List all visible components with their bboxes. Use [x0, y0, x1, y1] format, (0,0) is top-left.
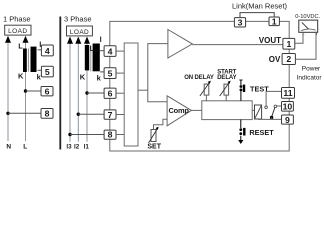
svg-text:K: K	[80, 73, 86, 82]
potentiometer SET	[149, 127, 159, 143]
wire l1 to terminal 6	[87, 92, 104, 94]
svg-text:11: 11	[283, 88, 292, 98]
svg-text:8: 8	[108, 130, 113, 140]
svg-text:SET: SET	[147, 144, 161, 151]
svg-text:7: 7	[108, 110, 113, 120]
CT secondary bar (1 phase)	[31, 47, 37, 72]
comparator U2	[167, 96, 191, 126]
terminal 1 (VOUT)	[283, 38, 295, 49]
terminal 4	[104, 46, 116, 57]
svg-text:RESET: RESET	[249, 128, 274, 137]
svg-text:K: K	[18, 71, 24, 80]
svg-text:L: L	[18, 41, 23, 50]
wire L (1 phase vertical)	[25, 39, 27, 141]
arrow into LOAD on N	[5, 36, 11, 43]
svg-text:l3: l3	[66, 143, 72, 150]
junction on L wire	[24, 89, 27, 92]
contact NO circle	[274, 105, 277, 108]
svg-text:Indicator: Indicator	[297, 75, 323, 82]
wire amplifier output to terminal 1 VOUT	[192, 44, 283, 46]
wire comparator output to logic block	[191, 109, 201, 111]
logic block	[202, 101, 252, 120]
svg-text:6: 6	[45, 86, 50, 96]
pushbutton TEST	[239, 80, 245, 101]
unit outline top edge segment link box1 to corner, right edge down to terminal 1	[279, 21, 289, 38]
svg-text:Comp: Comp	[169, 106, 190, 115]
unit outline top edge segment box3 to link box1	[246, 20, 269, 22]
wire N (1 phase vertical)	[7, 39, 9, 141]
terminal 8	[104, 130, 116, 140]
svg-text:10: 10	[283, 102, 293, 112]
wire NO contact to terminal 10	[277, 105, 282, 107]
bus wire to amplifier and comparator inputs	[148, 44, 168, 102]
junction on N wire	[6, 112, 9, 115]
svg-text:L: L	[90, 46, 95, 53]
terminal 4 (1 phase)	[41, 45, 53, 56]
op-amp A1 (output amplifier)	[168, 30, 192, 59]
svg-text:9: 9	[285, 115, 290, 125]
terminal 9	[282, 115, 294, 125]
svg-text:8: 8	[45, 109, 50, 119]
input block	[124, 43, 138, 146]
wire coil to terminal 9	[258, 118, 282, 120]
wire terminal 2 to meter -	[295, 32, 316, 59]
svg-text:0-10VDC.: 0-10VDC.	[295, 14, 320, 20]
svg-text:l2: l2	[74, 143, 80, 150]
wire l2 to terminal 7	[78, 113, 104, 115]
wire l1	[86, 40, 88, 142]
svg-text:l: l	[100, 35, 102, 44]
wire ON DELAY pot to logic block	[205, 95, 207, 101]
wire SET to comparator input	[154, 119, 168, 129]
wire terminal 5 to input block	[116, 72, 124, 74]
junction on l3	[68, 133, 71, 136]
terminal 11	[282, 88, 295, 99]
wire CT k-l to terminal 4 (1 phase)	[38, 49, 42, 51]
wire START DELAY pot to logic block	[225, 95, 227, 101]
wire N to terminal 8 (1 phase)	[8, 112, 41, 114]
unit outline bottom edge	[110, 124, 289, 151]
terminal 8 (1 phase)	[41, 109, 53, 119]
wire l3	[69, 40, 71, 142]
wire terminal 7 to input block	[116, 114, 124, 116]
svg-text:LOAD: LOAD	[70, 29, 89, 36]
meter - terminal dot	[316, 33, 317, 34]
CT primary bar (3 phase)	[85, 45, 89, 70]
svg-text:2: 2	[286, 54, 291, 64]
link wire (Man Reset)	[240, 13, 274, 18]
svg-text:1: 1	[286, 39, 291, 49]
arrow into LOAD on l3	[67, 37, 73, 44]
wire terminal 1 to meter +	[295, 32, 303, 43]
svg-text:L: L	[23, 143, 27, 150]
svg-text:6: 6	[108, 89, 113, 99]
svg-text:ON DELAY: ON DELAY	[184, 75, 214, 81]
wire terminal 11 to contact common	[266, 91, 281, 106]
ground (RESET)	[238, 140, 243, 144]
terminal 6 (1 phase)	[41, 86, 53, 96]
svg-text:OV: OV	[269, 55, 281, 64]
relay coil K1	[252, 105, 261, 119]
junction on l2	[77, 113, 80, 116]
terminal 5 (1 phase)	[41, 66, 53, 77]
terminal 1 (link)	[269, 16, 279, 26]
CT gap line (3 phase)	[90, 45, 92, 71]
LOAD box (3 phase)	[67, 26, 93, 36]
svg-text:DELAY: DELAY	[217, 75, 236, 81]
svg-text:4: 4	[45, 46, 50, 56]
svg-text:1: 1	[272, 16, 277, 26]
arrow into LOAD on l2	[75, 37, 81, 44]
meter M1	[299, 20, 318, 32]
wire terminal 4 to input block	[116, 50, 124, 52]
terminal 5	[104, 68, 116, 79]
wire terminal 8 to input block	[116, 134, 124, 136]
potentiometer ON DELAY	[200, 81, 211, 96]
terminal 3	[234, 17, 245, 27]
wire CT to terminal 5 (1 phase)	[38, 69, 42, 71]
terminal 7	[104, 110, 116, 120]
divider line	[59, 17, 61, 150]
svg-text:4: 4	[108, 46, 113, 56]
relay contact lever	[272, 108, 275, 117]
svg-text:1 Phase: 1 Phase	[3, 15, 31, 24]
arrow into LOAD on L	[23, 36, 29, 43]
svg-text:3 Phase: 3 Phase	[64, 15, 92, 24]
wire input block output to bus	[138, 89, 148, 91]
arrow into LOAD on l1	[84, 37, 90, 44]
pushbutton RESET	[239, 120, 245, 140]
terminal 10	[282, 102, 294, 112]
svg-text:5: 5	[45, 67, 50, 77]
svg-text:5: 5	[108, 68, 113, 78]
junction contact to terminal 9 wire	[270, 116, 273, 119]
wire l3 to terminal 8	[70, 134, 104, 136]
unit outline right edge segments	[288, 49, 290, 53]
svg-text:3: 3	[238, 17, 243, 27]
terminal 2	[282, 54, 295, 65]
svg-text:LOAD: LOAD	[8, 28, 27, 35]
unit outline top edge	[110, 21, 235, 45]
contact pivot circle (common)	[265, 106, 268, 109]
CT gap line (1 phase)	[27, 49, 29, 72]
junction on l1	[85, 91, 88, 94]
wire terminal 6 to input block	[116, 92, 124, 94]
terminal 6	[104, 88, 116, 98]
wire l2	[77, 40, 79, 142]
CT secondary bar (3 phase)	[93, 44, 100, 72]
wire CT to terminal 4	[100, 50, 104, 52]
svg-text:VOUT: VOUT	[259, 36, 281, 45]
svg-text:l1: l1	[84, 143, 90, 150]
potentiometer START DELAY	[220, 81, 231, 96]
LOAD box (1 phase)	[5, 25, 31, 35]
CT primary bar (1 phase)	[23, 49, 27, 73]
unit outline left edge segments between terminals	[109, 56, 111, 67]
svg-text:Link(Man Reset): Link(Man Reset)	[232, 2, 288, 11]
wire CT to terminal 5	[100, 71, 104, 73]
wire L to terminal 6 (1 phase)	[26, 90, 42, 92]
svg-text:Power: Power	[302, 65, 321, 72]
svg-text:N: N	[6, 143, 11, 150]
